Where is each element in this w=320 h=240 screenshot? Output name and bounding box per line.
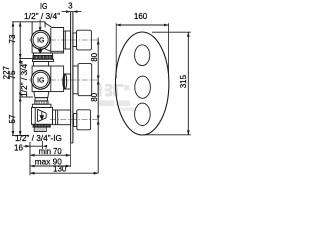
bottom handle: [77, 110, 91, 130]
arrows 75: [19, 59, 22, 64]
16 arrow: [24, 145, 43, 147]
middle pipe lens: [63, 74, 67, 89]
bottom flange: [33, 124, 50, 127]
middle handle (thermostat): [78, 64, 92, 96]
middle valve top collar: [34, 62, 49, 67]
extension line y58.5: [19, 58, 33, 60]
hole 1: [135, 45, 150, 66]
middle valve right pipe: [65, 74, 71, 89]
svg-text:1/2” / 3/4”: 1/2” / 3/4”: [24, 12, 60, 21]
cover plate (right view): [116, 32, 169, 135]
union middle-bottom: [32, 92, 51, 108]
bottom handle hub: [74, 114, 77, 127]
dim 315: [152, 31, 191, 33]
centerline bottom unit: [50, 119, 99, 121]
thread hatch bottom port: [36, 127, 44, 131]
IG circle middle valve: [31, 70, 50, 89]
flow arrow bottom valve: [40, 111, 43, 119]
top valve right pipe: [64, 31, 71, 49]
svg-text:min 70: min 70: [39, 147, 63, 156]
top valve body: [32, 22, 64, 53]
svg-text:IG: IG: [37, 37, 44, 44]
dimension line 73/75/57: [19, 22, 21, 136]
middle handle hub: [73, 66, 78, 94]
extension line y97: [19, 96, 33, 98]
arrows 73: [19, 22, 22, 27]
160 extension left: [115, 23, 117, 78]
centerline top unit: [29, 39, 99, 41]
leader from label to valve circle: [39, 20, 41, 31]
svg-text:IG: IG: [37, 77, 44, 84]
bottom valve outlet pipe: [53, 110, 71, 125]
svg-text:80: 80: [90, 52, 99, 61]
centerline middle unit: [29, 79, 99, 81]
svg-text:IG: IG: [40, 2, 47, 11]
extension line top y22: [12, 21, 33, 23]
dim line max90: [30, 165, 70, 167]
dim line min70: [30, 154, 70, 156]
svg-text:57: 57: [8, 114, 17, 123]
svg-text:80: 80: [90, 92, 99, 101]
dim line 130: [30, 172, 98, 174]
middle valve body: [32, 66, 64, 92]
svg-text:1/2” / 3/4”: 1/2” / 3/4”: [20, 61, 29, 97]
svg-text:3: 3: [68, 2, 73, 11]
extension line y135.5: [12, 135, 28, 137]
svg-text:75: 75: [8, 70, 17, 79]
wall plate side view: [71, 12, 73, 168]
svg-text:130: 130: [53, 164, 67, 173]
top handle hub: [73, 33, 77, 47]
hole 3: [135, 103, 151, 125]
hole 2: [135, 76, 151, 98]
svg-text:160: 160: [134, 12, 148, 21]
channel diagonal top valve: [43, 48, 64, 52]
vertical reference at valve rear: [29, 142, 31, 175]
top handle: [77, 30, 92, 50]
dimension line 80/80 and 130 right reference: [97, 38, 99, 174]
IG circle top valve: [31, 30, 50, 49]
bottom valve body: [32, 108, 53, 125]
svg-text:315: 315: [179, 74, 188, 88]
svg-text:73: 73: [8, 34, 17, 43]
plate lower extension: [70, 143, 72, 167]
bottom valve cone: [38, 109, 47, 121]
svg-text:16: 16: [14, 144, 23, 153]
flow arrow below top circle: [39, 48, 43, 53]
bottom port: [34, 127, 46, 131]
dimension line 227: [12, 22, 14, 136]
arrows 227: [12, 22, 15, 27]
watermark logo: [97, 84, 137, 111]
svg-text:1/2” / 3/4”-IG: 1/2” / 3/4”-IG: [15, 134, 62, 143]
union nut top-middle: [33, 53, 54, 62]
160 extension right: [168, 23, 170, 74]
arrows 57: [19, 97, 22, 102]
